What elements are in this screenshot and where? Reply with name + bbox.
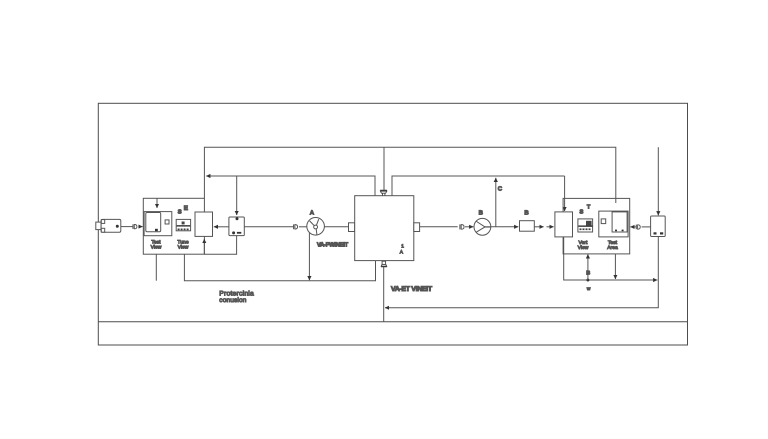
pump A circle: [307, 218, 325, 236]
svg-text:VA-PWINEIT: VA-PWINEIT: [317, 241, 349, 248]
wire: center vertical into top valve: [383, 147, 385, 190]
machine Test View mark: [155, 229, 158, 231]
B1 bottom marks: [232, 231, 235, 234]
valve top symbol: [380, 189, 387, 191]
svg-text:B: B: [524, 209, 529, 216]
motor M1 dot: [116, 225, 119, 228]
arrow up into G2: [587, 254, 589, 280]
wire center vertical to band: [383, 267, 385, 322]
svg-text:1: 1: [401, 244, 404, 250]
display Vert View dark patch: [586, 221, 592, 226]
svg-text:conusion: conusion: [219, 297, 246, 304]
svg-text:T: T: [587, 205, 591, 211]
wire G1 bottom extension to B1: [204, 236, 236, 255]
Test Area white box: [612, 212, 627, 232]
svg-text:A: A: [310, 209, 315, 216]
connector D1: [132, 224, 134, 229]
stub under Test View: [155, 254, 157, 281]
machine Test View small square: [165, 220, 169, 224]
big box T1: [355, 196, 414, 261]
Test Area marks: [615, 230, 617, 232]
small box B2: [651, 216, 666, 237]
display Tune View outer: [176, 219, 190, 230]
pump B circle: [474, 218, 491, 235]
svg-text:B: B: [586, 271, 590, 277]
Test Area small square: [601, 219, 606, 224]
outer frame: [98, 103, 687, 345]
svg-text:S: S: [178, 208, 182, 215]
big box T1 left port: [349, 223, 355, 232]
wire A to big box: [324, 226, 348, 228]
port on frame left: [96, 222, 101, 230]
display Vert View buttons: [580, 228, 582, 230]
big box right port: [414, 223, 420, 232]
machine Test View outer: [144, 212, 172, 236]
motor M1 tab bottom: [101, 228, 104, 232]
connector D4: [635, 225, 637, 230]
tall rect P2: [555, 212, 573, 237]
wire: drop into tall rect with arrow: [564, 176, 566, 211]
wire pump B to rect B: [491, 226, 519, 228]
wire from A down to bottom bus with arrow: [308, 233, 310, 280]
group G2: [563, 198, 630, 254]
wire from G1 bottom down and right: [184, 254, 375, 281]
svg-text:View: View: [578, 245, 589, 251]
wire from B1 left into P1 with arrow: [214, 226, 229, 228]
B1 top dot: [236, 217, 239, 220]
wire rect B to tall rect with two arrows: [534, 226, 543, 228]
junction dot: [586, 279, 589, 282]
display Tune View buttons: [178, 229, 180, 231]
connector D3: [459, 224, 461, 229]
svg-text:Area: Area: [607, 245, 618, 251]
wire from B1 right: [244, 226, 293, 228]
arrow stub into G1: [156, 198, 158, 208]
display Tune View dark band: [177, 225, 191, 227]
svg-text:S: S: [580, 208, 584, 215]
wire big box right to D3: [420, 226, 458, 228]
wire tall rect bottom down right with arrow: [564, 237, 658, 280]
wire G2 to D4 with arrow into G2: [630, 226, 636, 228]
small box B1: [229, 217, 244, 236]
wire B2 bottom down and left to center with arrow: [385, 237, 658, 308]
valve bottom symbol: [382, 261, 386, 264]
svg-text:VA-ET VINEIT: VA-ET VINEIT: [391, 286, 433, 293]
svg-text:E: E: [184, 205, 188, 212]
svg-text:View: View: [178, 245, 189, 251]
sub-box Test Area: [599, 211, 628, 237]
svg-text:View: View: [151, 245, 162, 251]
wire: drop into small box B1 with arrow: [236, 176, 238, 215]
rect B: [520, 221, 535, 232]
wire D4 to B2: [642, 226, 651, 228]
wire: [299, 226, 307, 228]
svg-text:B: B: [479, 209, 484, 216]
block P1 (white box on G1 right edge): [195, 212, 213, 236]
wire: right stub down into box B2: [657, 147, 659, 215]
title band line: [98, 321, 687, 323]
display Tune View small square: [182, 222, 185, 225]
B2 bottom marks: [654, 232, 657, 234]
motor M1 body: [101, 219, 121, 232]
svg-text:C: C: [498, 185, 503, 192]
wire: [121, 226, 133, 228]
svg-text:w: w: [586, 286, 591, 291]
wire: C branch: [495, 178, 497, 227]
machine Test View screen: [146, 213, 161, 232]
connector D2: [293, 224, 295, 229]
display Vert View outer: [578, 219, 593, 232]
wire arrow into pump B: [465, 226, 473, 228]
wire: second line right segment: [392, 176, 565, 196]
arrow down from G2: [614, 254, 616, 279]
wire: top feedback line: [204, 147, 615, 203]
group G1: [143, 198, 204, 254]
display Vert View band: [578, 225, 592, 227]
arrow up into P1: [203, 239, 205, 254]
motor M1 tab top: [101, 220, 104, 224]
wire arrow into group G1: [138, 226, 142, 228]
wire: second line left segment with left arrow: [206, 176, 375, 196]
